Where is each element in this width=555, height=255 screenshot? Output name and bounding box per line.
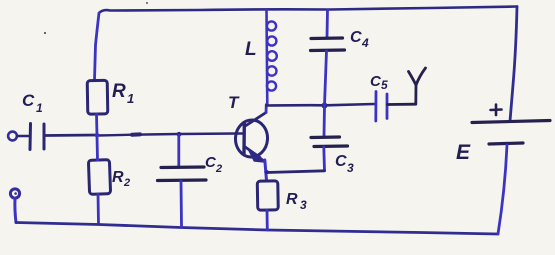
capacitor C4 bbox=[311, 10, 370, 105]
node C4/C3 junction bbox=[322, 103, 328, 109]
wire base bbox=[97, 134, 237, 136]
antenna bbox=[409, 68, 426, 104]
wire input terminal to C1 bbox=[17, 135, 29, 138]
wire top-right vertical bbox=[510, 7, 517, 122]
svg-text:3: 3 bbox=[347, 161, 354, 175]
capacitor C3 bbox=[311, 106, 354, 175]
wire C1 to base node bbox=[45, 134, 98, 137]
transistor T bbox=[228, 93, 269, 162]
svg-text:R: R bbox=[286, 191, 298, 208]
wire top-left vertical bbox=[95, 13, 100, 80]
svg-text:1: 1 bbox=[36, 101, 43, 115]
svg-text:C: C bbox=[350, 29, 362, 46]
svg-text:2: 2 bbox=[123, 177, 130, 189]
wire bottom rail bbox=[16, 223, 498, 235]
svg-text:C: C bbox=[22, 91, 35, 110]
resistor R1 bbox=[87, 80, 134, 114]
svg-text:C: C bbox=[335, 153, 347, 170]
resistor R3 bbox=[257, 181, 307, 212]
svg-text:3: 3 bbox=[300, 198, 307, 212]
wire top rail bbox=[99, 7, 517, 14]
inductor L bbox=[245, 10, 277, 105]
wire collector lead up bbox=[265, 105, 268, 113]
node emitter junction bbox=[264, 170, 269, 175]
capacitor C5 bbox=[370, 73, 415, 121]
wire R3 to bottom rail bbox=[266, 210, 269, 230]
svg-text:1: 1 bbox=[127, 91, 134, 106]
speck bbox=[146, 2, 148, 4]
node C2 junction bbox=[177, 132, 182, 137]
wire collector rail to C5 bbox=[266, 104, 374, 106]
capacitor C2 bbox=[158, 135, 223, 227]
wire bottom terminal stem bbox=[15, 199, 16, 223]
svg-text:R: R bbox=[112, 81, 126, 102]
svg-text:R: R bbox=[112, 169, 124, 186]
terminal input top bbox=[8, 132, 17, 141]
node base junction bbox=[95, 133, 100, 138]
node base-wire tick bbox=[132, 132, 140, 136]
wire emitter to C3 bbox=[267, 171, 325, 173]
terminal input bottom bbox=[10, 189, 19, 198]
resistor R2 bbox=[88, 160, 130, 195]
wire battery to bottom rail bbox=[498, 145, 507, 234]
svg-text:5: 5 bbox=[381, 78, 388, 92]
wire R1 to base node bbox=[95, 114, 98, 136]
svg-text:L: L bbox=[245, 39, 257, 60]
svg-text:E: E bbox=[456, 141, 471, 164]
battery E bbox=[456, 105, 550, 165]
svg-text:4: 4 bbox=[361, 36, 369, 50]
wire emitter lead down bbox=[265, 160, 267, 181]
capacitor C1 bbox=[22, 91, 44, 150]
svg-text:T: T bbox=[228, 93, 240, 112]
svg-text:2: 2 bbox=[215, 163, 222, 175]
wire base node to R2 bbox=[96, 136, 99, 160]
speck bbox=[44, 32, 46, 34]
wire R2 to bottom rail bbox=[97, 194, 100, 224]
